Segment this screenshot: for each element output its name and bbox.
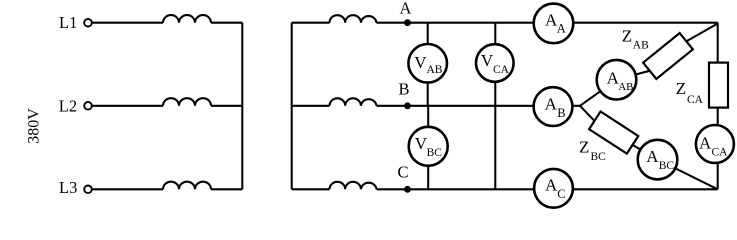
svg-text:A: A — [545, 95, 558, 114]
svg-text:380V: 380V — [26, 108, 43, 144]
svg-text:A: A — [557, 22, 566, 36]
svg-text:L1: L1 — [59, 13, 77, 32]
svg-text:B: B — [557, 106, 565, 120]
svg-text:A: A — [646, 147, 659, 166]
svg-text:BC: BC — [427, 147, 443, 159]
svg-text:A: A — [400, 0, 412, 18]
svg-text:AB: AB — [633, 39, 649, 51]
svg-text:L2: L2 — [59, 96, 77, 115]
svg-text:C: C — [398, 163, 409, 182]
svg-text:B: B — [399, 79, 410, 98]
svg-text:L3: L3 — [59, 178, 77, 197]
svg-text:BC: BC — [659, 160, 675, 172]
svg-text:V: V — [414, 53, 427, 72]
svg-text:V: V — [481, 51, 494, 70]
svg-text:AB: AB — [427, 64, 443, 76]
svg-text:A: A — [545, 175, 558, 194]
svg-text:AB: AB — [618, 81, 633, 93]
svg-text:BC: BC — [591, 151, 607, 163]
svg-text:A: A — [699, 133, 712, 152]
svg-text:Z: Z — [622, 27, 632, 46]
svg-text:Z: Z — [676, 79, 686, 98]
svg-text:C: C — [557, 187, 565, 201]
svg-text:CA: CA — [493, 64, 510, 76]
svg-text:CA: CA — [687, 94, 704, 106]
svg-text:Z: Z — [579, 137, 589, 156]
svg-text:CA: CA — [712, 146, 729, 158]
